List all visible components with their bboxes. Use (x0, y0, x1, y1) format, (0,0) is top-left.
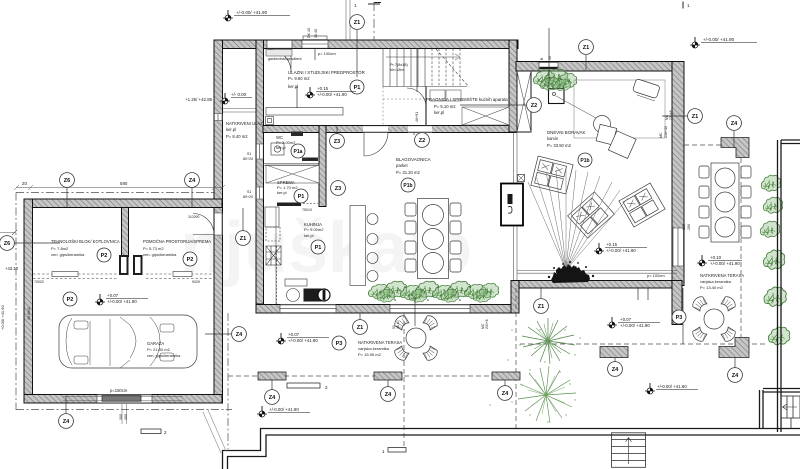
svg-text:100: 100 (682, 224, 686, 230)
svg-text:parket: parket (396, 163, 408, 168)
level marker top-left (223, 10, 290, 21)
rug outline (574, 80, 665, 138)
svg-text:Z1: Z1 (538, 304, 545, 310)
section line 1 top (373, 2, 375, 40)
driveway diagonal (203, 410, 226, 453)
wall: long west exterior wall (214, 40, 223, 403)
svg-text:vanjska keramika: vanjska keramika (700, 279, 732, 284)
svg-text:ker.pl: ker.pl (288, 84, 298, 89)
svg-text:p= 100cm: p= 100cm (647, 273, 665, 278)
wall: WC block east wall (319, 126, 326, 207)
svg-text:Z1: Z1 (240, 236, 247, 242)
node Z1 living top (579, 40, 594, 55)
room tag P1 hall (350, 80, 364, 94)
svg-text:+/-0.00/ +41.90: +/-0.00/ +41.90 (703, 37, 735, 42)
svg-text:Z4: Z4 (189, 178, 196, 184)
node Z1 terrace (353, 320, 368, 335)
svg-text:Z1: Z1 (354, 20, 361, 26)
svg-text:P1a: P1a (294, 149, 303, 155)
svg-text:Z4: Z4 (612, 367, 619, 373)
svg-text:+0.15: +0.15 (317, 86, 329, 91)
svg-text:Z4: Z4 (236, 332, 243, 338)
svg-text:70020: 70020 (34, 280, 44, 284)
svg-text:+0.15: +0.15 (606, 242, 618, 247)
node Z1 slab (534, 299, 549, 314)
door: hall to dining opening (363, 126, 388, 133)
property dashed west (15, 193, 17, 411)
svg-text:Z4: Z4 (502, 391, 509, 397)
washing machines (430, 90, 445, 101)
room tag P2 garage (63, 292, 77, 306)
svg-text:20: 20 (22, 181, 27, 186)
svg-text:ker.pl: ker.pl (226, 127, 236, 132)
svg-text:Z4: Z4 (63, 419, 70, 425)
svg-text:+0.10: +0.10 (710, 255, 722, 260)
svg-text:36.0041: 36.0041 (27, 307, 31, 320)
svg-text:PRAONICA I SPREMIŠTE kućnih ap: PRAONICA I SPREMIŠTE kućnih aparata (426, 97, 508, 102)
wall: living slab edge band (511, 281, 681, 289)
section ticks 1 (374, 2, 683, 9)
garage door opening in garage bottom wall (97, 395, 152, 404)
svg-text:ker.pl: ker.pl (434, 110, 444, 115)
radiators (52, 272, 78, 277)
dishwasher (285, 279, 307, 286)
svg-text:+/-0.00/ +41.90: +/-0.00/ +41.90 (710, 261, 740, 266)
sprema door leaf (277, 203, 301, 207)
marker rect 1 (south) (388, 448, 406, 453)
svg-text:ker.pl: ker.pl (304, 233, 314, 238)
svg-text:Z6: Z6 (4, 241, 11, 247)
planter living NW (533, 69, 576, 91)
svg-text:+/- 0.00: +/- 0.00 (231, 92, 247, 97)
window: hall west wall S1 upper (256, 144, 264, 159)
svg-text:+0.00/ +41.90: +0.00/ +41.90 (0, 305, 5, 330)
svg-text:POMOĆNA PROSTORIJA/SPREMA: POMOĆNA PROSTORIJA/SPREMA (143, 239, 211, 244)
svg-text:1: 1 (382, 449, 385, 454)
svg-text:2: 2 (164, 430, 167, 435)
svg-text:2: 2 (325, 385, 328, 390)
chairs right (450, 203, 461, 216)
boiler room doors (119, 255, 129, 275)
shoe box (266, 117, 274, 125)
level marker ulaz (220, 93, 252, 104)
svg-text:DK 40: DK 40 (307, 28, 311, 38)
svg-text:kamin: kamin (547, 136, 559, 141)
sink circle (287, 289, 300, 302)
room tag P1a wc (291, 144, 305, 158)
level marker terrace mid (276, 333, 329, 344)
level marker garage (95, 294, 148, 305)
node Z4 stub4 (608, 362, 623, 377)
level tick west (0, 230, 17, 235)
svg-text:P= 7.8m2: P= 7.8m2 (51, 246, 69, 251)
small tables rotated (596, 124, 617, 145)
svg-text:+/-0.00/ +41.90: +/-0.00/ +41.90 (620, 323, 650, 328)
window: hall west wall S1 lower (256, 187, 264, 199)
round table mid terrace (392, 313, 439, 362)
wall: hall/kitchen west wall (256, 40, 264, 304)
svg-text:P3: P3 (336, 341, 343, 347)
svg-text:P= 5.10 m2: P= 5.10 m2 (434, 104, 456, 109)
svg-text:+/-0.00/ +41.90: +/-0.00/ +41.90 (107, 299, 137, 304)
svg-text:Z4: Z4 (385, 392, 392, 398)
svg-text:P= 15.95 m2: P= 15.95 m2 (358, 352, 382, 357)
fireplace block dining/living (501, 184, 523, 226)
shaft: sprema X-box (266, 165, 319, 183)
stairs east small (781, 396, 800, 429)
svg-text:Z4: Z4 (269, 395, 276, 401)
window: living east wall door to terrace (673, 228, 684, 266)
window: ulaz west wall (214, 114, 223, 121)
palm plant upper (522, 318, 575, 364)
svg-text:P1b: P1b (580, 158, 589, 164)
svg-text:+/-0.00/ +41.90: +/-0.00/ +41.90 (317, 92, 347, 97)
praonica divider wall (425, 87, 427, 126)
svg-text:P2: P2 (187, 257, 194, 263)
glass wall dining-living (514, 133, 518, 281)
wall: garage west wall (24, 199, 33, 403)
svg-text:350: 350 (124, 414, 128, 420)
svg-text:cen. gips/keramika: cen. gips/keramika (143, 252, 177, 257)
wall: west wing top exterior (214, 40, 518, 49)
svg-text:NATKRIVENA TERASA: NATKRIVENA TERASA (700, 273, 744, 278)
svg-text:+0.07: +0.07 (107, 293, 119, 298)
glass doors south (517, 271, 677, 274)
wall: garage bottom wall (24, 395, 222, 404)
svg-text:P= 31.20 m2: P= 31.20 m2 (396, 170, 421, 175)
svg-text:cen. gips/keramika: cen. gips/keramika (147, 353, 181, 358)
node Z4 garage south (59, 414, 74, 429)
svg-text:+4.00/ +41.90: +4.00/ +41.90 (0, 165, 1, 190)
wc door leaf (302, 158, 318, 162)
node Z4 stub3 (498, 386, 513, 401)
fan rays from bush (528, 168, 628, 270)
bench in hall (266, 108, 343, 116)
node Z4 stub1 (265, 390, 280, 405)
ground dots around palms (489, 329, 580, 422)
level marker yard east (607, 317, 660, 328)
svg-text:NATKRIVENI ULAZ: NATKRIVENI ULAZ (226, 121, 263, 126)
room tag P3 terrace mid (332, 336, 346, 350)
svg-text:Z1: Z1 (357, 325, 364, 331)
svg-text:TEHNOLOŠKI BLOK/ KOTLOVNICA: TEHNOLOŠKI BLOK/ KOTLOVNICA (51, 239, 120, 244)
node Z3 wc (330, 134, 345, 149)
node Z3 sprema (331, 181, 346, 196)
garage door dim tick (122, 404, 127, 424)
ulaz step lines (223, 109, 256, 113)
svg-text:+/-0.00/ +41.90: +/-0.00/ +41.90 (236, 10, 268, 15)
fireplace box (549, 89, 565, 104)
sink (271, 143, 284, 155)
closet garderoba (266, 50, 292, 57)
node Z1 top (350, 15, 365, 30)
svg-text:40: 40 (548, 56, 552, 60)
svg-text:P2: P2 (67, 297, 74, 303)
svg-text:230+8: 230+8 (485, 319, 489, 329)
room tag P1b dining (401, 178, 415, 192)
island stools (367, 214, 378, 225)
wall: boiler room divider (122, 208, 129, 257)
right plant column (761, 175, 780, 191)
level marker entrance (305, 87, 356, 98)
door: praonica opening (408, 126, 432, 133)
svg-text:Z4: Z4 (732, 373, 739, 379)
dimension line above garage (16, 187, 222, 189)
room tag P2 aux (183, 252, 197, 266)
node Z1 east (688, 109, 703, 124)
svg-text:80+20: 80+20 (243, 195, 253, 199)
svg-text:750x?: 750x? (306, 157, 316, 161)
window: dining bottom wall glass (390, 305, 470, 314)
svg-text:16 40: 16 40 (314, 29, 318, 38)
room tag P1 kitchen (311, 240, 325, 254)
door: garage door from ulaz (214, 213, 223, 235)
svg-text:Z3: Z3 (334, 139, 341, 145)
svg-text:P= 33.50 m2: P= 33.50 m2 (547, 143, 572, 148)
node Z4 stub5 (728, 368, 743, 383)
sofa 3 (619, 183, 665, 227)
svg-text:+1.25/ +42.85: +1.25/ +42.85 (185, 97, 213, 102)
svg-text:šir=18m: šir=18m (390, 68, 404, 72)
wall between WC and sprema (263, 164, 319, 166)
svg-text:80+20: 80+20 (243, 157, 253, 161)
marker rect 2 (west) (287, 383, 320, 388)
svg-text:P= 5.73 m2: P= 5.73 m2 (143, 246, 164, 251)
svg-text:Z2: Z2 (531, 103, 538, 109)
wall: living room top wall (516, 62, 684, 72)
level marker yard sw (257, 406, 310, 417)
svg-text:16 40: 16 40 (396, 320, 400, 329)
door arc praonica (407, 88, 426, 107)
dark bush at living south (548, 261, 594, 283)
room tag P2 boiler (97, 248, 111, 262)
svg-text:NATKRIVENA TERASA: NATKRIVENA TERASA (358, 340, 402, 345)
node Z4 terrace column (727, 116, 742, 131)
svg-text:P1: P1 (315, 245, 322, 251)
stove black (304, 289, 322, 302)
svg-text:p= 100cm: p= 100cm (318, 51, 336, 56)
svg-text:+0.07: +0.07 (288, 332, 300, 337)
window: top wall entrance window (302, 40, 328, 49)
node Z6 garage (60, 173, 75, 188)
window: kitchen bottom wall (280, 305, 336, 314)
svg-text:Z6: Z6 (64, 178, 71, 184)
svg-text:DNEVNI BORAVAK: DNEVNI BORAVAK (547, 130, 585, 135)
terrace dashed east (520, 343, 768, 345)
room tag P3 terrace east (672, 310, 686, 324)
node Z4 stub2 (381, 387, 396, 402)
svg-text:+0.07: +0.07 (620, 317, 632, 322)
svg-text:230+8: 230+8 (669, 110, 673, 120)
svg-text:Z1: Z1 (692, 114, 699, 120)
stove X unit (266, 246, 281, 265)
svg-text:GARAŽA: GARAŽA (147, 341, 164, 346)
counter dashed (266, 227, 280, 241)
svg-text:Pr 7(8x18): Pr 7(8x18) (390, 63, 408, 67)
wall: garage top wall (24, 199, 222, 208)
level marker yard south (645, 383, 698, 394)
chaise top right (632, 79, 660, 99)
stairs down south (612, 433, 646, 468)
svg-text:590: 590 (120, 181, 128, 186)
svg-text:+/-0.00/ +41.80: +/-0.00/ +41.80 (657, 384, 687, 389)
svg-text:75010: 75010 (302, 208, 312, 212)
node Z4 garage east (232, 327, 247, 342)
svg-text:300: 300 (119, 414, 123, 420)
palm plant lower (518, 366, 576, 423)
svg-text:+43.10: +43.10 (5, 266, 19, 271)
svg-text:S1: S1 (247, 190, 251, 194)
svg-text:vanjska keramika: vanjska keramika (358, 346, 390, 351)
window: living top wall (539, 62, 558, 71)
svg-text:cen. gips/keramika: cen. gips/keramika (51, 252, 85, 257)
svg-text:P= 21.80 m2: P= 21.80 m2 (147, 347, 171, 352)
svg-text:Z3: Z3 (335, 186, 342, 192)
sofa 2 (568, 192, 615, 238)
svg-text:ker.pl: ker.pl (277, 190, 287, 195)
svg-text:110290: 110290 (188, 215, 199, 219)
wall: house bottom wall (kitchen/dining) (256, 305, 519, 314)
sofa 1 (531, 156, 573, 194)
svg-text:Z1: Z1 (583, 45, 590, 51)
svg-text:9025: 9025 (192, 280, 200, 284)
toilet (291, 132, 303, 137)
shaft: praonica box (462, 107, 509, 125)
svg-text:ULAZNI I STUDIJSKI PREDPROSTOR: ULAZNI I STUDIJSKI PREDPROSTOR (288, 70, 365, 75)
svg-text:+/-0.00/ +41.90: +/-0.00/ +41.90 (606, 248, 636, 253)
shaft: chimney wall between praonica and living (517, 71, 531, 132)
marker rect 2 (garage) (141, 429, 161, 434)
round table east terrace (690, 294, 737, 343)
svg-text:1: 1 (354, 3, 357, 8)
island (350, 206, 366, 286)
svg-text:P= 9.00m2: P= 9.00m2 (304, 227, 324, 232)
svg-text:P= 8.40 m2: P= 8.40 m2 (226, 134, 248, 139)
svg-text:P3: P3 (676, 315, 683, 321)
svg-text:p=150cm: p=150cm (110, 388, 128, 393)
wall: living room east wall (672, 62, 684, 286)
svg-text:Z4: Z4 (731, 121, 738, 127)
level marker top-right (690, 37, 757, 48)
wall: slab stub below living east (672, 281, 682, 325)
room tag P1b living (578, 153, 592, 167)
level marker terrace east (697, 255, 742, 266)
door arc garage from ulaz (193, 214, 214, 235)
svg-text:P2: P2 (101, 253, 108, 259)
wall: praonica east wall (509, 40, 517, 132)
terrace dashed boundary mid (228, 375, 520, 377)
node Z1 kitchen (236, 231, 251, 246)
svg-text:+/-0.00/ +41.90: +/-0.00/ +41.90 (269, 407, 299, 412)
svg-text:P= 13.40 m2: P= 13.40 m2 (700, 285, 724, 290)
svg-text:BLAGOVAONICA: BLAGOVAONICA (396, 157, 431, 162)
door: entrance door opening (267, 40, 292, 49)
hedge along dining window (368, 281, 498, 302)
svg-text:S1: S1 (247, 152, 251, 156)
level marker living (594, 243, 647, 254)
node Z2 praonica (527, 98, 542, 113)
svg-text:1: 1 (687, 3, 690, 8)
svg-text:200: 200 (687, 224, 691, 230)
wall: slab jog vertical (511, 281, 519, 314)
door arc entrance (268, 49, 291, 72)
room tag P1 sprema (294, 189, 308, 203)
svg-text:P1: P1 (298, 194, 305, 200)
wall stubs on terrace boundary (258, 138, 749, 381)
svg-text:230+30: 230+30 (664, 126, 668, 138)
wall: hall bottom wall y126 (263, 126, 516, 133)
svg-text:P1: P1 (354, 85, 361, 91)
svg-text:garderoba/ugradbeni: garderoba/ugradbeni (268, 57, 302, 61)
fridge tall unit (265, 207, 279, 227)
svg-text:P1b: P1b (403, 183, 412, 189)
svg-text:ker.pl: ker.pl (276, 145, 286, 150)
node Z2 hall (415, 133, 430, 148)
terrace dining table east (699, 163, 751, 242)
round side table (594, 116, 611, 133)
svg-text:MC: MC (659, 132, 663, 138)
svg-text:46+91: 46+91 (415, 112, 419, 122)
chairs left (405, 203, 416, 216)
svg-text:Z2: Z2 (419, 138, 426, 144)
svg-text:P= 9.60 m2: P= 9.60 m2 (288, 76, 310, 81)
svg-text:+/-0.00/ +41.90: +/-0.00/ +41.90 (288, 338, 318, 343)
dashed work line (33, 273, 212, 275)
node Z4 garage top (185, 173, 200, 188)
node Z6 west (0, 236, 14, 251)
